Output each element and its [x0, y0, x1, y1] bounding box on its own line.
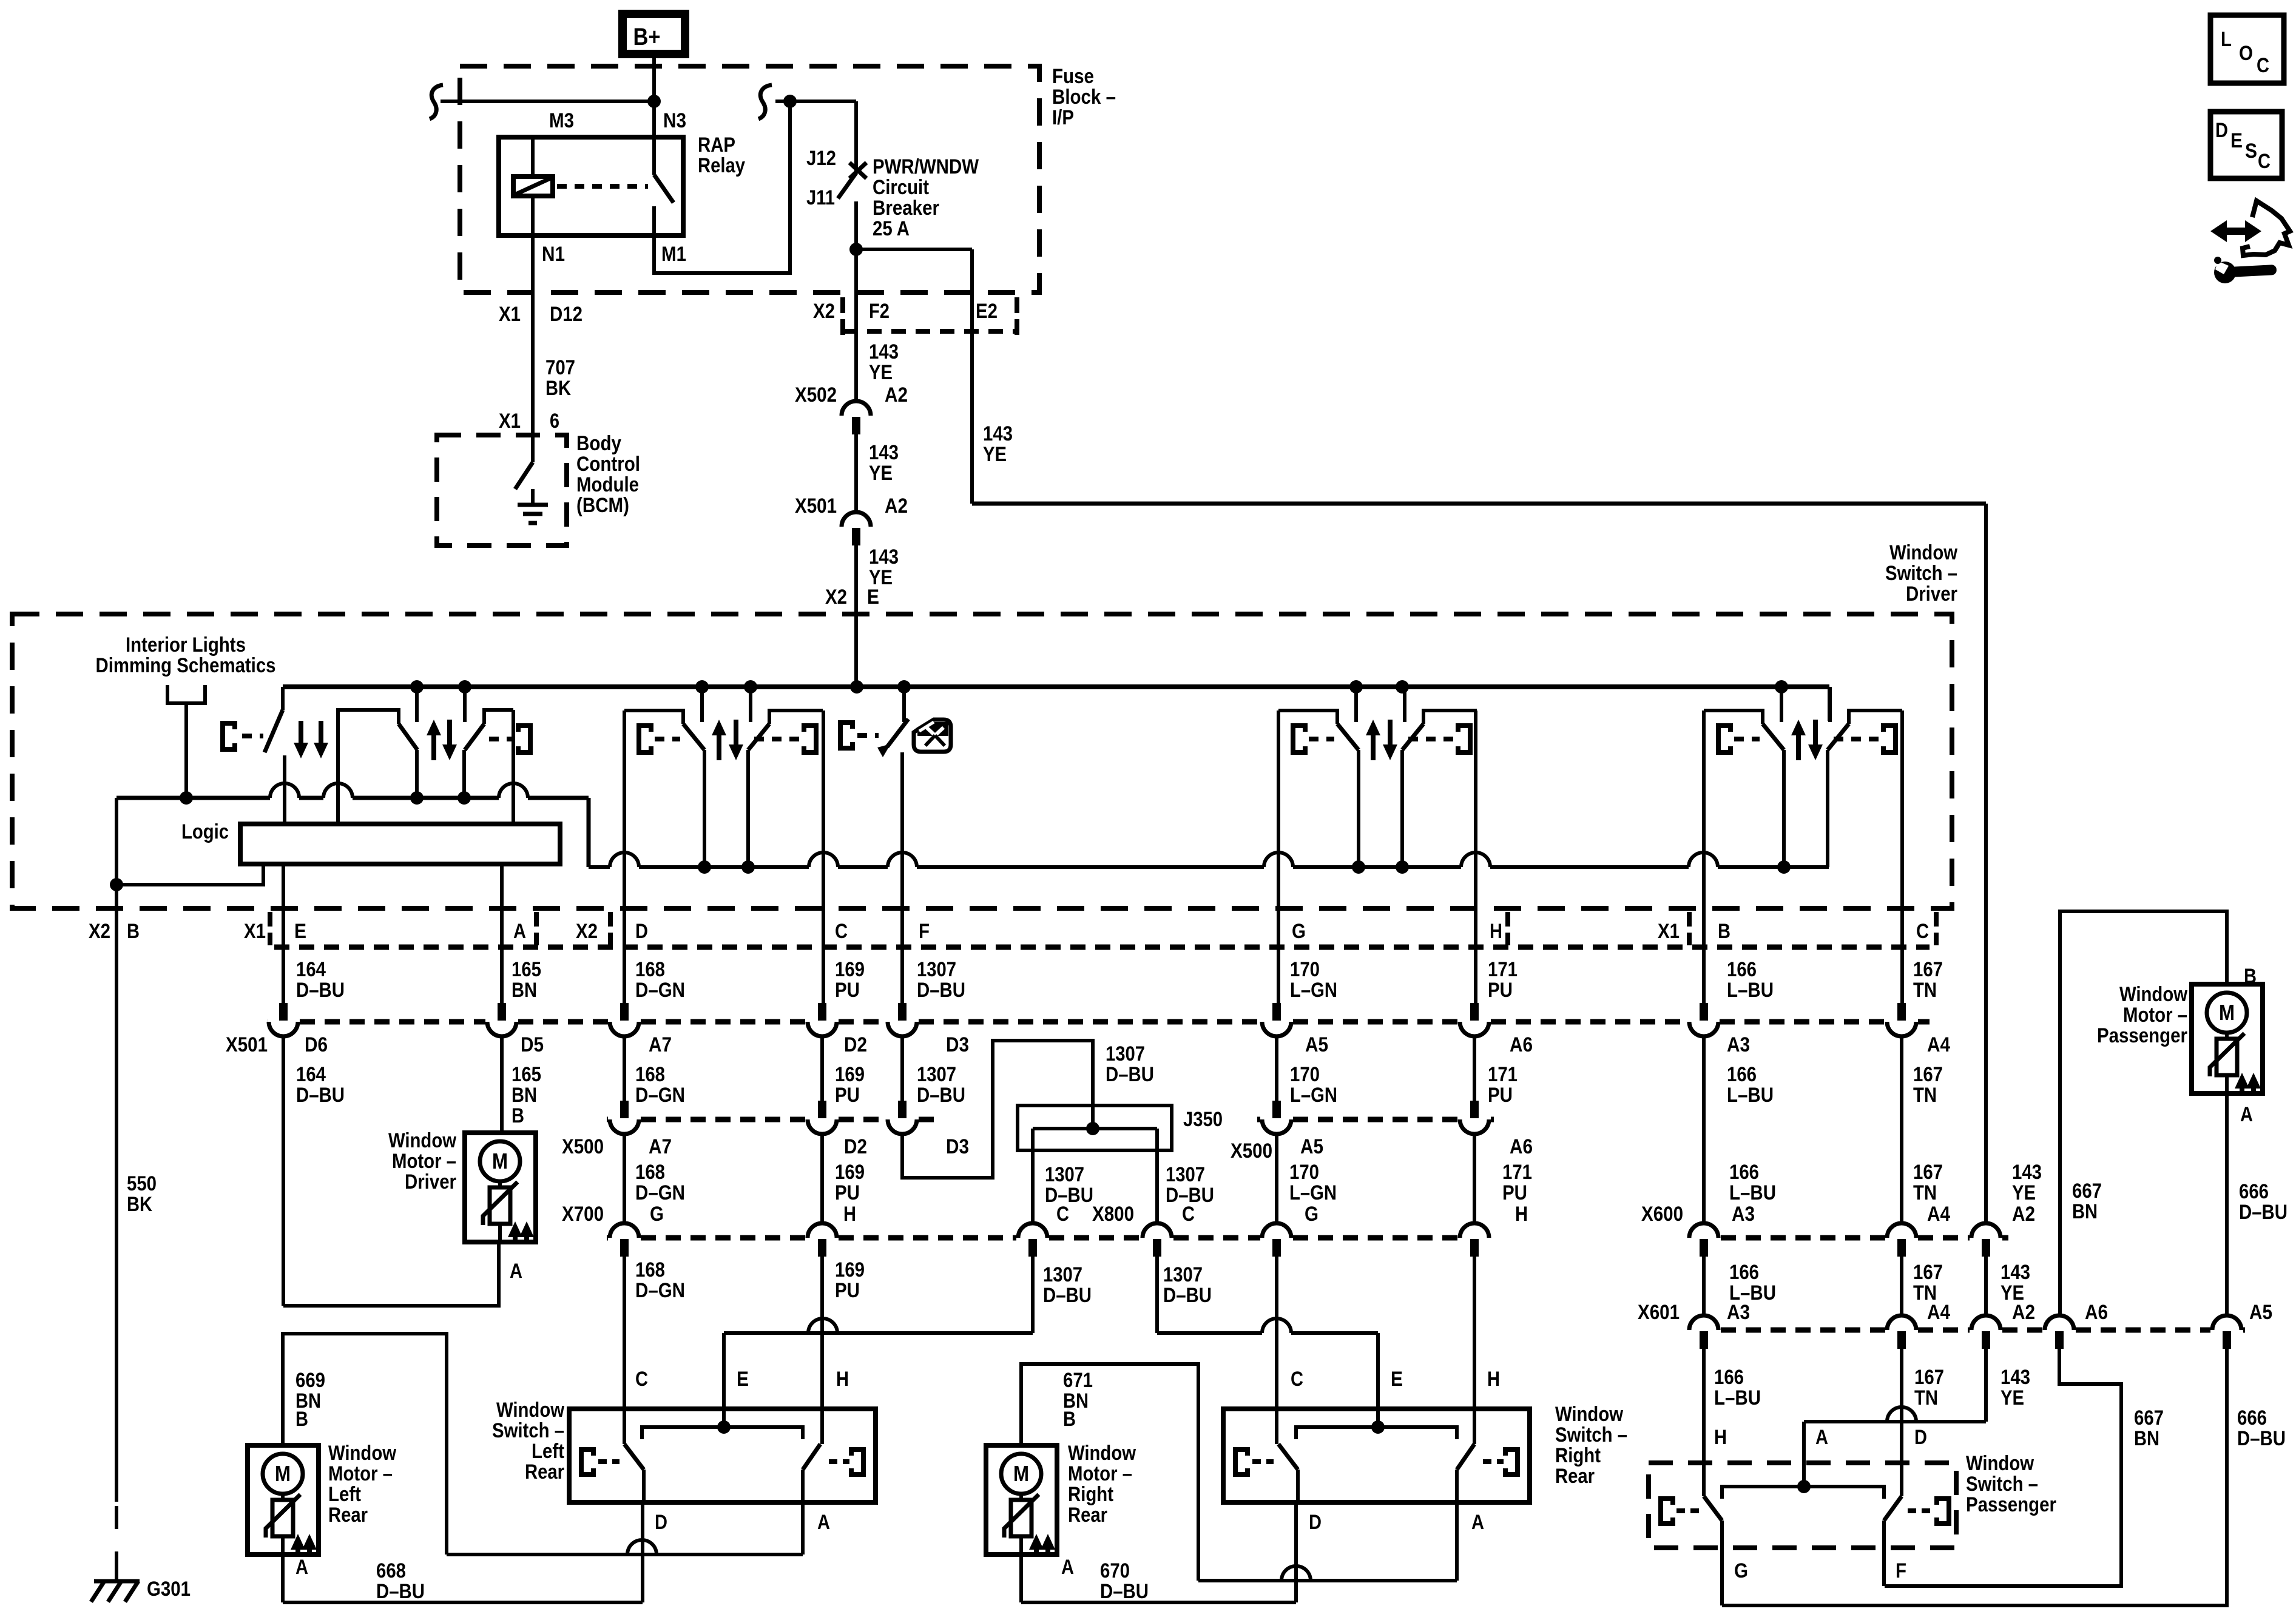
- wire label 168 D-GN: [635, 1161, 685, 1204]
- svg-text:A: A: [1815, 1426, 1828, 1449]
- switch SW6 passenger left blade: [1763, 724, 1784, 867]
- switch SW-LR left rear right blade: [803, 1444, 820, 1502]
- in-line connector pin H: [1460, 1223, 1489, 1257]
- svg-text:TN: TN: [1914, 1386, 1938, 1409]
- svg-text:O: O: [2239, 42, 2253, 65]
- svg-text:D12: D12: [550, 303, 582, 326]
- svg-text:X800: X800: [1092, 1203, 1134, 1226]
- svg-text:(BCM): (BCM): [576, 494, 629, 517]
- svg-text:J11: J11: [806, 186, 835, 209]
- Window Motor - Passenger label: [2097, 983, 2187, 1047]
- svg-text:L–BU: L–BU: [1727, 1084, 1774, 1107]
- svg-text:667: 667: [2134, 1406, 2164, 1430]
- svg-text:168: 168: [635, 958, 665, 981]
- wire 143 YE E2 branch to passenger feed: [972, 504, 1986, 1224]
- pin label A3: [1732, 1203, 1755, 1226]
- connector label X2: [89, 920, 110, 943]
- svg-text:A2: A2: [2012, 1203, 2035, 1226]
- svg-text:143: 143: [869, 340, 899, 363]
- pin label A4: [1927, 1301, 1950, 1324]
- svg-text:C: C: [835, 920, 848, 943]
- pin label A at passenger switch: [1815, 1426, 1828, 1449]
- connector label X502: [795, 383, 837, 407]
- in-line connector X601 pin A4: [1887, 1315, 1916, 1349]
- wire label 143 YE: [2012, 1161, 2042, 1204]
- wire label 166 L-BU: [1729, 1261, 1776, 1305]
- wire label 1307 D-BU: [1106, 1042, 1154, 1086]
- circuit breaker CB - PWR/WNDW 25A: [838, 163, 866, 249]
- svg-text:RAP: RAP: [698, 133, 735, 157]
- svg-text:D3: D3: [946, 1033, 969, 1056]
- in-line connector X601 pin A5: [2212, 1315, 2241, 1349]
- in-line connector X700 pin G: [610, 1223, 639, 1257]
- passenger switch common bus: [1722, 1480, 1884, 1499]
- svg-text:D: D: [1914, 1426, 1927, 1449]
- pin label D at SW-LR left rear: [655, 1511, 667, 1534]
- wire label 167 TN: [1913, 1161, 1943, 1204]
- svg-text:H: H: [1515, 1203, 1528, 1226]
- svg-text:1307: 1307: [917, 958, 956, 981]
- wire label 143 YE on E2 branch: [983, 422, 1013, 466]
- pin label A5: [1305, 1033, 1328, 1056]
- svg-text:BK: BK: [127, 1193, 152, 1216]
- in-line connector X501 pin A5: [1262, 1003, 1291, 1036]
- svg-text:E: E: [867, 586, 879, 609]
- svg-text:164: 164: [296, 1063, 326, 1086]
- wire 169 PU (pin C) to left rear switch: [822, 711, 823, 1444]
- pin label H at passenger switch: [1714, 1426, 1727, 1449]
- BCM internal switch to ground: [515, 435, 548, 523]
- svg-text:TN: TN: [1913, 979, 1937, 1002]
- svg-text:C: C: [635, 1368, 648, 1391]
- wire 165 BN driver down (pin A): [500, 864, 504, 1133]
- svg-text:Breaker: Breaker: [873, 197, 939, 220]
- pin label A2: [2012, 1203, 2035, 1226]
- switch SW6 passenger right blade: [1828, 724, 1849, 867]
- svg-text:YE: YE: [869, 361, 893, 384]
- pin label E at SW-LR left rear: [737, 1368, 749, 1391]
- wire label 171 PU: [1488, 1063, 1518, 1107]
- svg-text:X500: X500: [562, 1135, 604, 1158]
- wire 1307 D-BU (pin F) to splice J350: [902, 752, 1093, 1178]
- wire label 169 PU: [835, 1258, 865, 1302]
- svg-text:1307: 1307: [1166, 1163, 1205, 1186]
- pin label A3: [1727, 1301, 1750, 1324]
- wire label 167 TN: [1913, 958, 1943, 1002]
- connector row X700/X800: [607, 1235, 1458, 1241]
- svg-text:166: 166: [1727, 958, 1757, 981]
- wire label 169 PU: [835, 1161, 865, 1204]
- svg-text:D–BU: D–BU: [296, 1084, 345, 1107]
- connector label X2: [576, 920, 598, 943]
- pin label D2: [844, 1033, 867, 1056]
- switch SW5 right rear right common arm: [1423, 711, 1477, 724]
- Window Motor - Left Rear label: [328, 1442, 396, 1527]
- svg-text:B: B: [2244, 965, 2257, 988]
- in-line connector X501 pin D2: [808, 1003, 837, 1036]
- svg-text:A5: A5: [2249, 1301, 2272, 1324]
- wire 168 D-GN (pin D) to left rear switch: [623, 711, 626, 1444]
- wire label 168 D-GN: [635, 958, 685, 1002]
- svg-text:166: 166: [1727, 1063, 1757, 1086]
- svg-text:666: 666: [2237, 1406, 2267, 1430]
- svg-text:M3: M3: [549, 109, 574, 132]
- connector row X1/X2 pin strip: [274, 945, 1930, 950]
- Window Switch - Driver label: [1885, 541, 1957, 606]
- svg-text:YE: YE: [2012, 1181, 2036, 1204]
- wire 167 TN (pin C) to passenger switch: [1902, 711, 1902, 1496]
- wire 666 D-BU passenger motor A to switch G: [1722, 1093, 2227, 1605]
- svg-text:B: B: [1063, 1408, 1076, 1431]
- in-line connector X500 pin A5: [1262, 1101, 1291, 1134]
- svg-text:668: 668: [376, 1559, 406, 1582]
- service icon outline shape: [2243, 201, 2290, 255]
- power bus end drop at passenger cluster: [1828, 687, 1831, 721]
- svg-text:E: E: [294, 920, 306, 943]
- wire to circuit breaker: [790, 101, 856, 171]
- svg-text:1307: 1307: [1043, 1263, 1082, 1286]
- svg-text:Left: Left: [532, 1440, 564, 1463]
- in-line connector X800 pin C right: [1143, 1223, 1172, 1257]
- svg-text:TN: TN: [1913, 1084, 1937, 1107]
- svg-text:B: B: [295, 1408, 308, 1431]
- in-line connector X600 pin A3: [1689, 1223, 1718, 1257]
- pin label N1: [542, 243, 565, 266]
- pin label M1: [661, 243, 686, 266]
- wire 1307 D-BU left branch to left rear switch E: [724, 1129, 1033, 1427]
- svg-text:D–BU: D–BU: [1163, 1284, 1212, 1307]
- pin label E at SW-RR right rear: [1391, 1368, 1403, 1391]
- fuse block connection curl at J12 feed: [758, 85, 790, 119]
- switch SW3 left rear fixed contacts: [702, 687, 751, 722]
- svg-text:A6: A6: [2085, 1301, 2108, 1324]
- wire 668 D-BU left rear switch D to motor A: [283, 1502, 643, 1602]
- svg-text:Window: Window: [1889, 541, 1957, 564]
- pin label A2: [885, 383, 908, 407]
- switch SW5 right rear left common rail: [1278, 711, 1337, 724]
- svg-text:Control: Control: [576, 453, 640, 476]
- connector row X601: [1721, 1328, 2245, 1333]
- svg-text:164: 164: [296, 958, 326, 981]
- wire breaker to F2: [854, 249, 858, 402]
- svg-text:A3: A3: [1727, 1033, 1750, 1056]
- wire label 167 TN: [1913, 1261, 1943, 1305]
- svg-text:PWR/WNDW: PWR/WNDW: [873, 155, 979, 178]
- svg-text:Right: Right: [1068, 1483, 1113, 1506]
- Window Switch - Left Rear label: [492, 1399, 564, 1484]
- svg-text:PU: PU: [1502, 1181, 1527, 1204]
- svg-text:669: 669: [295, 1369, 325, 1392]
- wire label 668 D-BU: [376, 1559, 425, 1603]
- pin label B: [127, 920, 140, 943]
- svg-text:A4: A4: [1927, 1033, 1950, 1056]
- fuse block - I/P dashed box: [460, 66, 1039, 292]
- wire 166 L-BU (pin B) to passenger switch: [1702, 711, 1706, 1496]
- svg-text:E: E: [737, 1368, 749, 1391]
- svg-text:171: 171: [1488, 958, 1518, 981]
- svg-text:H: H: [1490, 920, 1502, 943]
- svg-text:PU: PU: [835, 979, 860, 1002]
- svg-text:H: H: [836, 1368, 849, 1391]
- wire label 169 PU: [835, 958, 865, 1002]
- switch SW5 right rear right blade: [1402, 724, 1423, 867]
- svg-text:167: 167: [1914, 1366, 1944, 1389]
- svg-text:D6: D6: [305, 1033, 328, 1056]
- wire label 166 L-BU: [1729, 1161, 1776, 1204]
- pin label A at SW-RR right rear: [1471, 1511, 1484, 1534]
- wire label 707 BK: [545, 356, 575, 400]
- in-line connector X800 pin C left: [1018, 1223, 1047, 1257]
- wire 707 BK relay to BCM: [531, 235, 535, 435]
- svg-text:BN: BN: [512, 979, 537, 1002]
- svg-text:F: F: [1896, 1559, 1906, 1582]
- wire 143 YE: [856, 434, 899, 513]
- svg-text:C: C: [1916, 920, 1929, 943]
- svg-text:666: 666: [2239, 1180, 2269, 1203]
- wire label 168 D-GN: [635, 1258, 685, 1302]
- svg-text:Fuse: Fuse: [1052, 65, 1094, 88]
- wire label 165 BN: [512, 958, 541, 1002]
- wire driver cluster output bus: [116, 783, 589, 885]
- in-line connector pin G: [1262, 1223, 1291, 1257]
- svg-text:BK: BK: [545, 377, 571, 400]
- ground label G301: [147, 1578, 191, 1601]
- svg-text:170: 170: [1289, 1161, 1319, 1184]
- pin label A5: [2249, 1301, 2272, 1324]
- svg-text:X1: X1: [499, 410, 521, 433]
- svg-text:169: 169: [835, 1161, 865, 1184]
- wire 670 D-BU right rear switch D to motor A: [1021, 1502, 1296, 1602]
- LOC reference box: [2210, 15, 2284, 83]
- wire label 143 YE: [869, 340, 899, 384]
- svg-text:A6: A6: [1510, 1135, 1533, 1158]
- svg-text:25 A: 25 A: [873, 217, 910, 240]
- connector row X500 right: [1257, 1117, 1494, 1122]
- svg-text:Body: Body: [576, 432, 621, 455]
- svg-text:B+: B+: [633, 24, 661, 50]
- wire label 669 BN: [295, 1369, 325, 1413]
- wire label 143 YE: [2001, 1261, 2030, 1305]
- wire label 666 D-BU: [2237, 1406, 2286, 1450]
- switch SW3 left rear right common arm: [769, 711, 823, 724]
- switch SW2 right blade: [464, 724, 484, 798]
- svg-text:N1: N1: [542, 243, 565, 266]
- svg-text:L–GN: L–GN: [1290, 1084, 1337, 1107]
- svg-text:D: D: [1309, 1511, 1322, 1534]
- pin label E2: [976, 300, 998, 323]
- in-line connector X500 pin D3: [888, 1101, 917, 1134]
- connector label X501: [795, 495, 837, 518]
- svg-text:M: M: [275, 1461, 291, 1486]
- switch SW-RR right rear common bus: [1296, 1420, 1457, 1439]
- svg-text:171: 171: [1502, 1161, 1532, 1184]
- svg-text:A7: A7: [649, 1135, 672, 1158]
- svg-text:X2: X2: [89, 920, 110, 943]
- svg-text:Motor –: Motor –: [328, 1462, 393, 1485]
- wire label 170 L-GN: [1290, 958, 1337, 1002]
- svg-text:L–BU: L–BU: [1729, 1181, 1776, 1204]
- pin label D at passenger switch: [1914, 1426, 1927, 1449]
- pin label E: [294, 920, 306, 943]
- svg-text:S: S: [2245, 140, 2257, 163]
- svg-text:X501: X501: [226, 1033, 268, 1056]
- connector label X800: [1092, 1203, 1134, 1226]
- pin label A7: [649, 1033, 672, 1056]
- Window Switch - Passenger label: [1966, 1452, 2056, 1516]
- in-line connector X500 pin A7: [610, 1101, 639, 1134]
- svg-text:166: 166: [1729, 1161, 1759, 1184]
- switch SW-RR right rear left blade: [1278, 1444, 1298, 1502]
- node at J12 feed: [783, 95, 797, 108]
- wire M1 to J12 feed: [654, 103, 790, 273]
- svg-text:1307: 1307: [1106, 1042, 1145, 1065]
- pin label G at passenger switch: [1734, 1559, 1748, 1582]
- svg-text:PU: PU: [835, 1279, 860, 1302]
- in-line connector X501 pin D3: [888, 1003, 917, 1036]
- connector label X500: [1231, 1139, 1272, 1163]
- switch SW6 passenger linkage brackets: [1718, 726, 1896, 752]
- svg-text:BN: BN: [2072, 1200, 2098, 1223]
- svg-text:X600: X600: [1641, 1203, 1683, 1226]
- connector X2 F2/E2 dashed outline: [843, 297, 1017, 337]
- Window Motor - Right Rear label: [1068, 1442, 1136, 1527]
- svg-text:Window: Window: [1068, 1442, 1136, 1465]
- wire label 1307 D-BU: [917, 1063, 965, 1107]
- svg-text:A: A: [1471, 1511, 1484, 1534]
- in-line connector X601 pin A6: [2045, 1315, 2074, 1349]
- svg-text:Logic: Logic: [181, 820, 229, 843]
- switch SW5 right rear linkage brackets: [1293, 726, 1470, 752]
- svg-text:C: C: [2258, 150, 2271, 173]
- svg-text:N3: N3: [663, 109, 686, 132]
- connector label X600: [1641, 1203, 1683, 1226]
- svg-text:168: 168: [635, 1063, 665, 1086]
- PWR/WNDW Circuit Breaker 25 A label: [873, 155, 979, 240]
- wire label 671 BN: [1063, 1369, 1093, 1413]
- wire label 164 D-BU: [296, 1063, 345, 1107]
- window switch passenger dashed box: [1649, 1463, 1956, 1548]
- svg-text:M: M: [492, 1149, 508, 1173]
- window switch driver dashed box: [12, 614, 1952, 908]
- svg-text:Rear: Rear: [525, 1460, 564, 1484]
- svg-text:C: C: [2257, 54, 2269, 77]
- switch SW-LR left rear linkage brackets: [581, 1450, 863, 1474]
- svg-text:D–GN: D–GN: [635, 1084, 685, 1107]
- svg-text:167: 167: [1913, 1161, 1943, 1184]
- connector row X600: [1721, 1235, 2008, 1241]
- svg-text:Driver: Driver: [1906, 582, 1957, 606]
- pin label A5: [1300, 1135, 1323, 1158]
- svg-text:167: 167: [1913, 1261, 1943, 1284]
- in-line connector X501 pin A3: [1689, 1003, 1718, 1036]
- logic module box: [240, 824, 560, 864]
- svg-text:X601: X601: [1638, 1301, 1680, 1324]
- pin label F: [919, 920, 930, 943]
- connector label X500: [562, 1135, 604, 1158]
- svg-text:143: 143: [2001, 1366, 2030, 1389]
- in-line connector X500 pin D2: [808, 1101, 837, 1134]
- pin label B: [1718, 920, 1730, 943]
- svg-text:B: B: [512, 1104, 524, 1127]
- wire label 1307 D-BU: [1166, 1163, 1214, 1207]
- svg-text:PU: PU: [1488, 979, 1513, 1002]
- motor M2 - Window Motor Left Rear: [248, 1445, 319, 1555]
- connector label X601: [1638, 1301, 1680, 1324]
- pin label E: [867, 586, 879, 609]
- svg-text:TN: TN: [1913, 1181, 1937, 1204]
- svg-text:A6: A6: [1510, 1033, 1533, 1056]
- svg-text:707: 707: [545, 356, 575, 379]
- svg-text:L: L: [2221, 28, 2232, 51]
- svg-text:170: 170: [1290, 1063, 1320, 1086]
- wire 143 YE right feed to passenger switch A: [1804, 1257, 1986, 1487]
- svg-text:E: E: [2230, 129, 2243, 152]
- relay K - RAP Relay box: [499, 137, 683, 235]
- svg-text:167: 167: [1913, 958, 1943, 981]
- svg-text:D: D: [2215, 119, 2228, 142]
- svg-text:F: F: [919, 920, 930, 943]
- svg-text:A: A: [513, 920, 526, 943]
- wire label 171 PU: [1488, 958, 1518, 1002]
- switch SW4 express-down contact: [877, 687, 908, 757]
- in-line connector X502 pin A2: [842, 401, 871, 434]
- switch SW2 driver window rocker left common: [338, 710, 399, 824]
- pin label D at SW-RR right rear: [1309, 1511, 1322, 1534]
- svg-text:Interior Lights: Interior Lights: [126, 633, 246, 657]
- RAP Relay label: [698, 133, 745, 177]
- wire 667 BN passenger motor B to switch F: [1885, 911, 2227, 1586]
- svg-text:D2: D2: [844, 1135, 867, 1158]
- in-line connector X700 pin H: [808, 1223, 837, 1257]
- pin label A6: [1510, 1135, 1533, 1158]
- pin label C: [1182, 1203, 1195, 1226]
- pin label G: [1292, 920, 1306, 943]
- svg-text:Motor –: Motor –: [2123, 1004, 2187, 1027]
- svg-text:Window: Window: [1966, 1452, 2034, 1475]
- pin label M3: [549, 109, 574, 132]
- pin label D3: [946, 1135, 969, 1158]
- svg-text:Passenger: Passenger: [2097, 1024, 2187, 1047]
- pin label H at left rear switch: [836, 1368, 849, 1391]
- wire label 1307 D-BU: [1043, 1263, 1092, 1307]
- svg-text:166: 166: [1729, 1261, 1759, 1284]
- svg-text:171: 171: [1488, 1063, 1518, 1086]
- wire label 167 TN: [1914, 1366, 1944, 1409]
- pin label D6: [305, 1033, 328, 1056]
- svg-text:Relay: Relay: [698, 154, 745, 177]
- switch SW-RR right rear box: [1223, 1409, 1530, 1502]
- switch SW3 left rear right blade: [748, 724, 769, 867]
- svg-text:A3: A3: [1732, 1203, 1755, 1226]
- connector row X501: [267, 1019, 1930, 1025]
- in-line connector X501 pin A4: [1887, 1003, 1916, 1036]
- svg-text:A2: A2: [885, 383, 908, 407]
- svg-text:YE: YE: [2001, 1386, 2024, 1409]
- pin label B at right rear motor: [1063, 1408, 1076, 1431]
- svg-text:E: E: [1391, 1368, 1403, 1391]
- svg-text:A4: A4: [1927, 1301, 1950, 1324]
- svg-text:165: 165: [512, 958, 541, 981]
- connector label X2: [825, 586, 847, 609]
- pin label A at passenger motor: [2240, 1103, 2253, 1126]
- pin label B at left rear motor: [295, 1408, 308, 1431]
- pin label H: [843, 1203, 856, 1226]
- svg-text:D–BU: D–BU: [296, 979, 345, 1002]
- svg-text:143: 143: [983, 422, 1013, 445]
- switch SW1 driver window down contact: [265, 687, 285, 824]
- pin label C: [1056, 1203, 1069, 1226]
- relay switch contact: [654, 137, 674, 235]
